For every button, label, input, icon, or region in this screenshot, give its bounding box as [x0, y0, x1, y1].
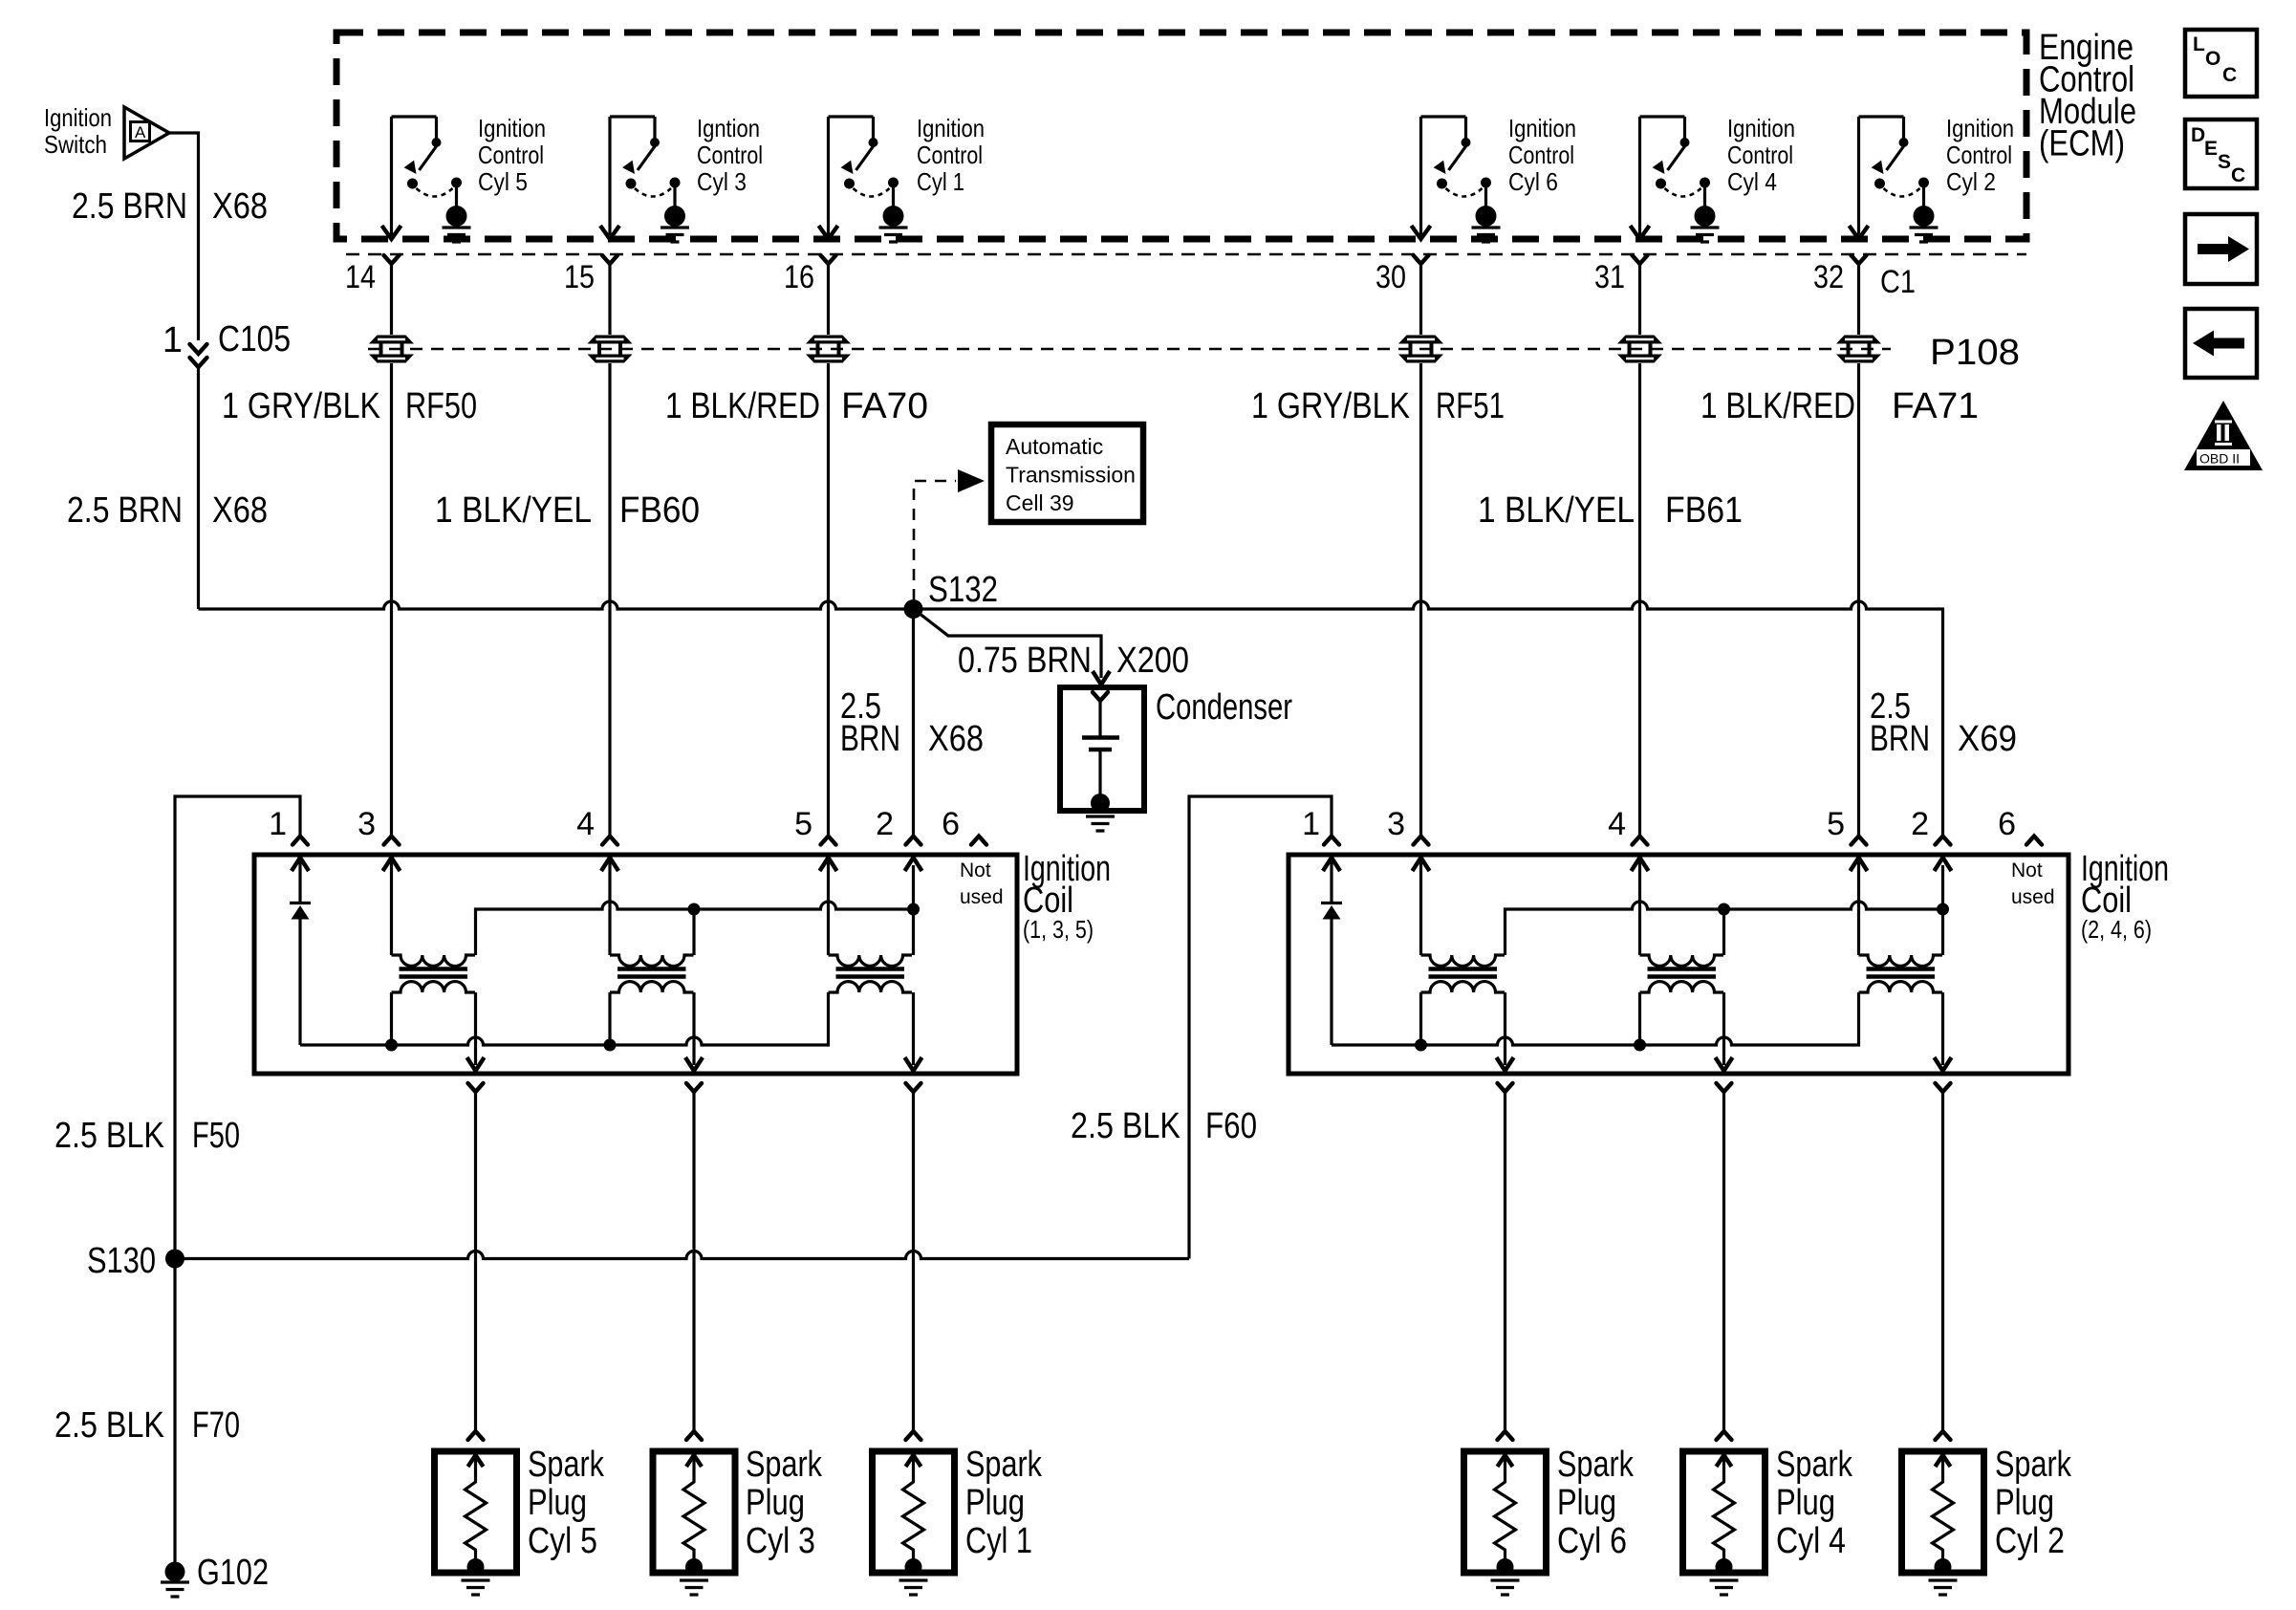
svg-text:X69: X69	[1958, 719, 2017, 759]
svg-text:4: 4	[576, 806, 595, 842]
wire S132 to condenser X200	[919, 613, 1101, 678]
wire pin14 to grommet	[390, 264, 393, 335]
grommet wire31	[1617, 336, 1662, 363]
svg-text:X68: X68	[212, 490, 268, 531]
spark plug cyl3 terminal	[686, 1431, 702, 1440]
wire coil to spark plug cyl1	[912, 1092, 915, 1430]
svg-text:2.5 BRN: 2.5 BRN	[72, 186, 187, 227]
spark plug cyl 2	[1902, 1451, 1984, 1573]
svg-text:(ECM): (ECM)	[2039, 124, 2125, 164]
ignition control driver Cyl 5	[382, 117, 471, 242]
grommet wire32 / P108	[1836, 336, 1881, 363]
svg-text:Cyl 3: Cyl 3	[746, 1521, 815, 1561]
ignition control driver Cyl 6	[1412, 117, 1501, 242]
coil1 secondary bus	[300, 992, 829, 1045]
spark plug cyl6 terminal	[1498, 1431, 1513, 1440]
coil2 secondary bus	[1332, 992, 1859, 1045]
svg-text:FB60: FB60	[619, 490, 700, 531]
svg-text:1: 1	[162, 320, 183, 360]
ignition control driver Cyl 4	[1631, 117, 1720, 242]
svg-text:Plug: Plug	[746, 1483, 805, 1523]
coil1 output cyl5	[474, 992, 477, 1065]
ignition switch triangle A	[124, 107, 169, 159]
output terminal cyl6	[1498, 1083, 1513, 1092]
coil1 primary bus	[476, 902, 914, 955]
automatic transmission box	[991, 424, 1143, 522]
svg-text:used: used	[2011, 886, 2055, 908]
condenser box	[1060, 687, 1144, 811]
svg-text:Not: Not	[960, 859, 991, 881]
grommet wire14	[369, 336, 414, 363]
spark plug cyl 5	[435, 1451, 517, 1573]
spark plug cyl 6	[1464, 1451, 1547, 1573]
svg-text:Transmission: Transmission	[1006, 463, 1136, 488]
coil1 pin4 entry arrow	[601, 858, 618, 871]
svg-text:C105: C105	[218, 319, 291, 359]
svg-text:C1: C1	[1880, 264, 1916, 300]
svg-text:Control: Control	[917, 141, 983, 169]
svg-text:O: O	[2205, 48, 2220, 70]
wire pin15 to grommet	[608, 264, 611, 335]
svg-text:Control: Control	[1727, 141, 1793, 169]
S130 ground bus wire	[175, 1251, 1189, 1259]
svg-text:BRN: BRN	[1870, 719, 1930, 759]
spark plug cyl 3	[653, 1451, 735, 1573]
wire 31 down to coil pin 4	[1638, 363, 1641, 836]
coil1 pin5 entry arrow	[820, 858, 837, 871]
svg-text:0.75 BRN: 0.75 BRN	[958, 641, 1092, 681]
svg-text:A: A	[135, 123, 146, 141]
svg-text:1 BLK/YEL: 1 BLK/YEL	[435, 490, 592, 531]
wire 15 down to coil pin 4	[608, 363, 611, 836]
svg-text:Control: Control	[478, 141, 544, 169]
svg-text:5: 5	[1827, 806, 1845, 842]
coil1 pin 4 terminal	[602, 837, 617, 845]
svg-text:S: S	[2218, 151, 2231, 173]
svg-text:Spark: Spark	[1776, 1445, 1853, 1485]
svg-text:used: used	[960, 886, 1004, 908]
splice S130	[165, 1250, 184, 1269]
coil1 output cyl3	[692, 992, 695, 1065]
spark plug cyl4 terminal	[1717, 1431, 1732, 1440]
grommet wire15	[588, 336, 633, 363]
svg-text:3: 3	[357, 806, 376, 842]
svg-text:RF51: RF51	[1436, 386, 1505, 426]
wire coil to spark plug cyl4	[1722, 1092, 1725, 1430]
svg-text:Plug: Plug	[528, 1483, 587, 1523]
svg-text:Cyl 4: Cyl 4	[1776, 1521, 1846, 1561]
spark plug cyl1 terminal	[906, 1431, 921, 1440]
wire ignition switch to X68 vertical	[169, 133, 199, 340]
svg-text:E: E	[2204, 138, 2218, 160]
wire pin30 to grommet	[1419, 264, 1422, 335]
svg-text:RF50: RF50	[405, 386, 477, 426]
coil2 pin 5 terminal	[1852, 837, 1867, 845]
coil1 secondary droppers	[392, 992, 611, 1045]
coil1 pin2 entry arrow	[905, 858, 922, 871]
ignition coil (2,4,6) box	[1289, 855, 2069, 1074]
svg-text:Control: Control	[697, 141, 763, 169]
wire 14 down to coil pin 3	[390, 363, 393, 836]
svg-text:X68: X68	[928, 719, 984, 759]
svg-text:Ignition: Ignition	[44, 103, 112, 132]
svg-text:Cyl 1: Cyl 1	[917, 167, 964, 196]
svg-text:Cyl 6: Cyl 6	[1557, 1521, 1627, 1561]
condenser capacitor	[1098, 702, 1101, 736]
svg-text:F50: F50	[192, 1116, 240, 1156]
svg-text:Cyl 1: Cyl 1	[965, 1521, 1032, 1561]
ignition control driver Cyl 3	[600, 117, 689, 242]
svg-text:BRN: BRN	[840, 719, 900, 759]
coil1 pin 2 terminal	[906, 837, 921, 845]
ignition coil (1,3,5) box	[254, 855, 1017, 1074]
coil2 pin2 entry arrow	[1935, 858, 1952, 871]
grommet wire30	[1398, 336, 1443, 363]
pin 31 terminal	[1633, 255, 1648, 264]
wire 16 down to coil pin 5	[827, 363, 830, 836]
svg-text:Cyl 2: Cyl 2	[1995, 1521, 2065, 1561]
splice S132	[904, 599, 923, 619]
svg-text:X200: X200	[1116, 641, 1189, 681]
wire coil to spark plug cyl6	[1504, 1092, 1506, 1430]
coil1 transformer cyl3	[610, 955, 694, 992]
svg-text:Plug: Plug	[1776, 1483, 1835, 1523]
LOC legend box	[2185, 30, 2257, 97]
wire 32 down to coil pin 5	[1857, 363, 1860, 836]
wire coil to spark plug cyl3	[692, 1092, 695, 1430]
svg-text:FA71: FA71	[1892, 386, 1979, 426]
coil2 transformer cyl2	[1859, 955, 1943, 992]
svg-text:X68: X68	[212, 186, 268, 227]
svg-text:2.5 BLK: 2.5 BLK	[1071, 1106, 1180, 1146]
right arrow legend box	[2185, 214, 2257, 284]
svg-text:Igntion: Igntion	[697, 114, 760, 142]
svg-text:Cyl 2: Cyl 2	[1946, 167, 1996, 196]
coil2 pin 3 terminal	[1414, 837, 1429, 845]
svg-text:Spark: Spark	[1557, 1445, 1635, 1485]
svg-text:Control: Control	[1946, 141, 2012, 169]
svg-text:S130: S130	[87, 1241, 156, 1281]
wire 30 down to coil pin 3	[1419, 363, 1422, 836]
svg-text:32: 32	[1813, 259, 1844, 295]
coil1 pin 1 terminal	[292, 837, 308, 845]
coil1 pin1 entry arrow and diode	[292, 858, 309, 871]
spark plug cyl 1	[873, 1451, 955, 1573]
svg-text:Ignition: Ignition	[478, 114, 546, 142]
svg-text:Ignition: Ignition	[917, 114, 985, 142]
ground G102	[165, 1562, 185, 1582]
coil2 primary bus	[1505, 902, 1943, 955]
wire S132 down to coil pin 2	[912, 609, 915, 836]
F60 ground rail wire	[1189, 796, 1332, 1259]
wire pin16 to grommet	[827, 264, 830, 335]
svg-text:L: L	[2193, 33, 2205, 55]
svg-text:1 GRY/BLK: 1 GRY/BLK	[1251, 386, 1410, 426]
svg-text:6: 6	[942, 806, 960, 842]
svg-text:Ignition: Ignition	[1946, 114, 2014, 142]
grommet wire16	[806, 336, 851, 363]
svg-text:FA70: FA70	[841, 386, 928, 426]
coil1 pin 3 terminal	[384, 837, 400, 845]
wire coil to spark plug cyl5	[474, 1092, 477, 1430]
svg-text:F60: F60	[1205, 1106, 1257, 1146]
coil2 pin 2 terminal	[1936, 837, 1951, 845]
F50 ground rail wire	[175, 796, 300, 1572]
coil1 pin 5 terminal	[821, 837, 836, 845]
svg-text:2.5 BRN: 2.5 BRN	[67, 490, 183, 531]
svg-text:1 BLK/YEL: 1 BLK/YEL	[1478, 490, 1635, 531]
coil2 pin5 entry arrow	[1851, 858, 1868, 871]
coil2 output cyl2	[1941, 992, 1944, 1065]
spark plug cyl 4	[1683, 1451, 1765, 1573]
coil2 transformer cyl4	[1640, 955, 1724, 992]
svg-text:C: C	[2222, 64, 2237, 86]
svg-text:2.5 BLK: 2.5 BLK	[54, 1405, 164, 1446]
svg-text:C: C	[2231, 164, 2245, 186]
svg-text:1 BLK/RED: 1 BLK/RED	[1700, 386, 1855, 426]
svg-text:P108: P108	[1930, 333, 2020, 373]
svg-text:D: D	[2191, 124, 2205, 146]
output terminal cyl4	[1717, 1083, 1732, 1092]
svg-text:3: 3	[1387, 806, 1405, 842]
coil1 pin3 entry arrow	[383, 858, 401, 871]
coil2 pin 1 terminal	[1324, 837, 1339, 845]
pin 14 terminal	[384, 255, 400, 264]
svg-text:Ignition: Ignition	[1508, 114, 1576, 142]
pin 32 terminal / connector C1	[1852, 255, 1867, 264]
svg-text:4: 4	[1608, 806, 1626, 842]
svg-text:Plug: Plug	[965, 1483, 1025, 1523]
svg-text:Plug: Plug	[1995, 1483, 2054, 1523]
coil2 primary risers	[1724, 909, 1943, 955]
svg-text:15: 15	[564, 259, 595, 295]
svg-text:Cyl 5: Cyl 5	[478, 167, 528, 196]
condenser ground	[1091, 794, 1110, 813]
coil2 pin 4 terminal	[1633, 837, 1648, 845]
coil2 pin 6 not used terminal	[2026, 837, 2042, 845]
svg-text:Cyl 6: Cyl 6	[1508, 167, 1558, 196]
svg-text:1: 1	[1302, 806, 1320, 842]
coil1 output cyl1	[912, 992, 915, 1065]
svg-text:2.5 BLK: 2.5 BLK	[54, 1116, 164, 1156]
coil2 output cyl6	[1504, 992, 1506, 1065]
left arrow legend box	[2185, 309, 2257, 378]
svg-text:Cell 39: Cell 39	[1006, 490, 1074, 515]
coil1 transformer cyl1	[829, 955, 913, 992]
svg-text:G102: G102	[197, 1553, 269, 1593]
spark plug cyl2 terminal	[1936, 1431, 1951, 1440]
dashed wire to automatic transmission	[914, 481, 956, 600]
P108 bulkhead dashed line	[368, 348, 1891, 351]
wire pin32 to grommet	[1857, 264, 1860, 335]
output terminal cyl1	[906, 1083, 921, 1092]
OBD II triangle	[2184, 401, 2263, 470]
coil1 transformer cyl5	[392, 955, 476, 992]
svg-text:Cyl 3: Cyl 3	[697, 167, 747, 196]
DESC legend box	[2185, 120, 2257, 188]
svg-text:30: 30	[1375, 259, 1406, 295]
svg-text:F70: F70	[192, 1405, 240, 1446]
svg-text:Spark: Spark	[528, 1445, 605, 1485]
coil2 pin4 entry arrow	[1632, 858, 1649, 871]
svg-text:1 GRY/BLK: 1 GRY/BLK	[222, 386, 380, 426]
ignition control driver Cyl 1	[819, 117, 908, 242]
pin 16 terminal	[821, 255, 836, 264]
pin 30 terminal	[1414, 255, 1429, 264]
svg-text:S132: S132	[928, 570, 998, 610]
svg-text:Cyl 5: Cyl 5	[528, 1521, 597, 1561]
svg-text:1: 1	[269, 806, 287, 842]
wire coil to spark plug cyl2	[1941, 1092, 1944, 1430]
svg-text:5: 5	[794, 806, 812, 842]
svg-text:OBD II: OBD II	[2199, 451, 2240, 467]
svg-text:(1, 3, 5): (1, 3, 5)	[1023, 915, 1094, 944]
ignition feed bus wire right	[914, 601, 1943, 836]
svg-text:6: 6	[1998, 806, 2016, 842]
svg-text:2: 2	[876, 806, 894, 842]
wire pin31 to grommet	[1638, 264, 1641, 335]
ignition control driver Cyl 2	[1850, 117, 1939, 242]
svg-text:Spark: Spark	[746, 1445, 823, 1485]
svg-text:Spark: Spark	[1995, 1445, 2072, 1485]
wire C105 down to feed bus	[197, 367, 200, 609]
output terminal cyl3	[686, 1083, 702, 1092]
coil2 transformer cyl6	[1421, 955, 1505, 992]
coil2 pin1 entry arrow and diode	[1323, 858, 1340, 871]
coil2 output cyl4	[1722, 992, 1725, 1065]
ECM dashed box	[336, 33, 2026, 239]
svg-text:(2, 4, 6): (2, 4, 6)	[2081, 915, 2152, 944]
coil1 pin 6 not used terminal	[971, 837, 986, 845]
svg-text:Switch: Switch	[44, 130, 107, 159]
svg-text:2: 2	[1911, 806, 1929, 842]
spark plug cyl5 terminal	[468, 1431, 484, 1440]
ignition feed bus wire	[199, 601, 914, 609]
connector C1 dashed line	[346, 253, 2026, 256]
svg-text:Control: Control	[1508, 141, 1574, 169]
coil1 primary risers	[694, 909, 914, 955]
coil2 pin3 entry arrow	[1413, 858, 1430, 871]
svg-text:Cyl 4: Cyl 4	[1727, 167, 1777, 196]
svg-text:Spark: Spark	[965, 1445, 1043, 1485]
svg-text:1 BLK/RED: 1 BLK/RED	[665, 386, 820, 426]
svg-text:16: 16	[784, 259, 814, 295]
svg-text:FB61: FB61	[1665, 490, 1743, 531]
svg-text:Automatic: Automatic	[1006, 434, 1103, 459]
coil2 secondary droppers	[1421, 992, 1640, 1045]
svg-text:31: 31	[1594, 259, 1625, 295]
svg-text:Not: Not	[2011, 859, 2043, 881]
svg-text:Ignition: Ignition	[1727, 114, 1795, 142]
svg-text:Plug: Plug	[1557, 1483, 1616, 1523]
connector C105	[190, 344, 207, 354]
condenser terminal	[1093, 692, 1108, 701]
svg-text:14: 14	[345, 259, 376, 295]
output terminal cyl2	[1936, 1083, 1951, 1092]
output terminal cyl5	[468, 1083, 484, 1092]
svg-text:Condenser: Condenser	[1156, 687, 1292, 728]
pin 15 terminal	[602, 255, 617, 264]
